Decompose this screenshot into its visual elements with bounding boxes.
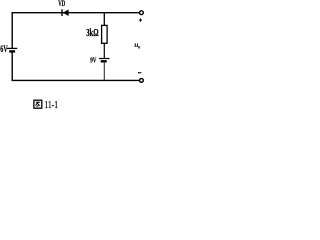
terminal - (output, bottom right) bbox=[140, 79, 144, 83]
wire left vertical upper bbox=[11, 12, 13, 48]
label + bbox=[139, 19, 142, 21]
wire top (node between 6V+, diode, R, output +) bbox=[12, 12, 140, 14]
battery E1 6V long plate bbox=[7, 47, 17, 49]
battery E2 9V short plate bbox=[101, 60, 107, 62]
wire resistor to 9V battery bbox=[103, 43, 105, 59]
svg-text:11-1: 11-1 bbox=[44, 99, 58, 111]
wire left vertical lower bbox=[11, 51, 13, 81]
svg-text:6V: 6V bbox=[0, 45, 7, 55]
svg-text:3kΩ: 3kΩ bbox=[86, 28, 98, 39]
svg-text:9V: 9V bbox=[90, 56, 97, 65]
diode VD triangle bbox=[63, 9, 69, 16]
battery E1 6V short plate bbox=[9, 50, 15, 52]
terminal + (output, top right) bbox=[140, 11, 144, 15]
diode VD cathode bar bbox=[61, 9, 63, 16]
battery E2 9V long plate bbox=[99, 58, 110, 60]
resistor R 3kΩ body bbox=[102, 25, 108, 43]
wire branch top (node to resistor) bbox=[103, 12, 105, 26]
background bbox=[0, 0, 147, 118]
wire 9V battery to bottom node bbox=[103, 61, 105, 80]
label - (minus) bbox=[138, 72, 141, 74]
caption glyph 图 (drawn) bbox=[34, 100, 42, 108]
wire bottom bbox=[12, 79, 140, 81]
svg-text:VD: VD bbox=[58, 0, 65, 8]
